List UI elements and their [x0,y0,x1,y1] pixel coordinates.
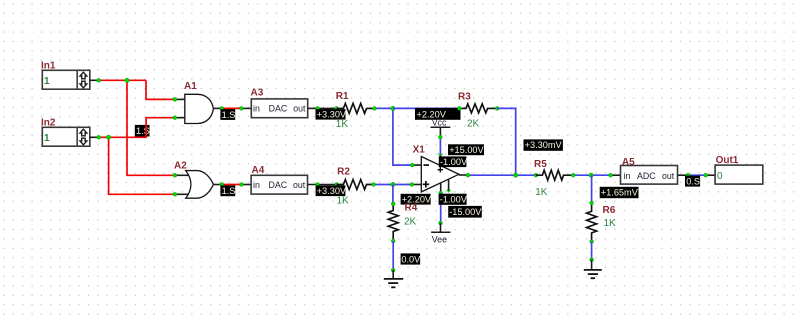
svg-text:X1: X1 [413,145,426,156]
svg-text:0.S: 0.S [686,177,700,187]
wire R6 down to ground [591,242,593,260]
probe label +1.65mV (divider net) [600,187,639,198]
node In1 junction [125,78,129,82]
svg-text:+3.30mV: +3.30mV [525,140,563,150]
wire R1 right to junction [375,107,393,109]
svg-text:+3.30V: +3.30V [317,186,347,196]
svg-text:-1.00V: -1.00V [440,195,468,205]
node ground wire dot [391,268,395,272]
svg-text:1K: 1K [336,119,349,130]
or gate A2 [174,160,222,198]
svg-text:R5: R5 [534,159,547,170]
node A1 out [220,107,243,111]
ground (below R6) [584,260,602,279]
resistor R6 [587,203,616,242]
probe label +3.30mV (output net) [524,139,563,150]
wire In1 to junction [99,79,147,81]
and gate A1 [175,81,222,123]
node R6 dots [590,201,594,243]
probe label +3.30V (R1 left) [316,109,347,120]
probe label -15.00V (Vee pin) [448,206,482,218]
svg-text:1: 1 [44,133,50,144]
node output dots [466,173,538,177]
wire plus-input junction down to R4 [392,185,394,204]
resistor R3 [458,92,497,130]
node NC pin mark [447,190,451,192]
probe label +3.30V (R2 left) [316,185,347,196]
resistor R1 [336,91,375,130]
In1 pin [90,79,99,81]
node A3 out dots [316,107,339,111]
svg-text:out: out [293,180,306,190]
svg-text:1K: 1K [604,218,617,229]
svg-text:ADC: ADC [637,171,656,181]
wire R2 right to op-amp plus input [374,184,422,186]
wire feedback top (junction to R3) [393,107,459,109]
DAC A4 [251,165,307,194]
node A2 out [220,183,244,187]
node Vcc dots [438,135,443,156]
wire op-amp output to R5 [468,174,536,176]
svg-text:DAC: DAC [269,180,288,190]
node A4 out dots [316,183,339,187]
node A1 input dots [173,98,177,120]
svg-text:1.S: 1.S [222,186,236,196]
probe label 0.0V (ground net) [401,253,422,264]
wire R5 right to ADC A5 [573,174,620,176]
svg-text:0.0V: 0.0V [401,255,421,265]
wire junction down to R6 [591,175,593,203]
DAC A3 [251,88,308,118]
wire In1 down-right to A1 top input [146,80,175,99]
node R1-R3 junction [391,106,395,110]
node minus input dot [410,163,414,167]
svg-text:2K: 2K [467,119,480,130]
In2 pin [90,136,99,138]
svg-text:1K: 1K [337,196,350,207]
op-amp X1 [413,145,468,193]
svg-text:in: in [253,180,260,190]
input source In1 [41,61,90,90]
resistor R5 [534,159,573,198]
svg-text:-15.00V: -15.00V [449,207,482,217]
wire In2 branch down to A2 bottom input [109,137,175,194]
node In2 pin dot [97,135,101,139]
svg-text:1.S: 1.S [136,126,150,136]
net state label 1.S (A1 out) [220,109,235,120]
node Vee pin dot [439,191,443,195]
probe label +2.20V (plus input) [401,194,432,205]
wire R4 down to ground [392,241,394,270]
node A5 out dots [686,173,708,177]
svg-text:+1.65mV: +1.65mV [601,188,639,198]
wire Vee pin down [440,193,442,223]
svg-text:R3: R3 [458,92,471,103]
svg-text:out: out [662,171,675,181]
wire In2 to corner up to A1 bottom input [99,118,175,138]
wire minus input (junction down and right) [393,108,421,165]
resistor R4 [388,203,418,242]
ADC A5 [621,157,678,184]
node R3 dots [457,107,499,111]
probe label -1.00V (minus input) [439,156,468,167]
svg-text:-1.00V: -1.00V [440,157,468,167]
resistor R2 [337,166,374,206]
node Vee wire dot [439,221,443,225]
svg-text:out: out [293,104,306,114]
probe label +2.20V (top net) [415,108,461,120]
power flag Vcc [431,118,451,138]
svg-text:R4: R4 [405,203,418,214]
svg-text:R2: R2 [337,166,350,177]
wire A5 out to Out1 [678,174,715,176]
node In2 junction [106,135,110,139]
svg-text:A3: A3 [251,88,264,99]
node R4 dots [391,202,395,243]
wire R3 right down to output [497,108,516,175]
svg-text:1.S: 1.S [222,110,236,120]
svg-text:A1: A1 [184,81,197,92]
wire A1 out to DAC A3 [222,107,251,109]
wire A3 out to R1 [308,107,337,109]
net state label 1.S (A2 out) [220,185,235,196]
wire A4 out to R2 [308,184,337,186]
wire Vcc to op-amp [439,137,441,155]
output display Out1 [715,155,763,184]
wire In1 branch down to A2 top input [127,80,175,175]
power flag Vee [431,223,450,245]
node R5 right dots [571,173,612,177]
node R2 right / plus input junction [372,182,414,186]
net state label 1.S (In2 net) [135,125,150,137]
node A2 input dots [173,173,177,196]
node R1 right [373,107,377,111]
probe label -1.00V (lower) [439,194,468,205]
svg-text:1: 1 [44,76,50,87]
input source In2 [41,118,90,147]
probe label +15.00V (Vcc pin) [448,144,485,155]
svg-text:Vee: Vee [432,235,447,245]
net state label 0.S (output net) [685,176,700,187]
svg-text:Vcc: Vcc [432,118,447,128]
svg-text:0: 0 [717,171,723,182]
svg-text:2K: 2K [404,217,417,228]
wire A2 out to DAC A4 [222,184,251,186]
svg-text:A2: A2 [174,160,187,171]
node In1 pin dot [97,78,101,82]
ground (below R4) [384,270,403,287]
svg-text:R6: R6 [603,205,616,216]
node ground wire dot (R6) [590,258,594,262]
svg-text:R1: R1 [336,91,349,102]
svg-text:DAC: DAC [269,104,288,114]
svg-text:in: in [253,104,260,114]
svg-text:1K: 1K [535,187,548,198]
svg-text:+15.00V: +15.00V [449,145,484,155]
svg-text:in: in [624,171,631,181]
